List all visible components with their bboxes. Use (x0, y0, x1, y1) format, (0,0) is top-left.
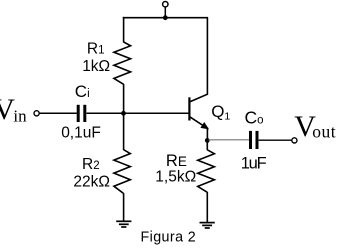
svg-text:22kΩ: 22kΩ (73, 174, 110, 191)
svg-text:1uF: 1uF (241, 155, 267, 173)
svg-text:1kΩ: 1kΩ (82, 58, 110, 75)
transistor Q1 (189, 18, 208, 129)
svg-text:1,5kΩ: 1,5kΩ (155, 169, 196, 186)
capacitor Co (251, 131, 258, 149)
emitter arrowhead (201, 123, 209, 129)
wire Ci to base (through base node) (86, 112, 188, 114)
wire emitter node to Co (grey) (209, 139, 250, 141)
junction dot at supply rail (163, 15, 168, 20)
ground (left, under R2) (116, 221, 131, 227)
base bar (188, 97, 190, 120)
wire RE to ground (206, 192, 208, 223)
junction dot emitter node (205, 138, 210, 143)
junction dot base node (121, 111, 126, 116)
svg-text:Figura 2: Figura 2 (141, 230, 197, 246)
wire Co to Vout terminal (259, 139, 292, 141)
svg-text:0,1uF: 0,1uF (61, 125, 101, 142)
supply terminal stub (164, 6, 166, 17)
wire Vin to Ci (39, 112, 77, 114)
ground (right, under RE) (200, 223, 215, 228)
wire emitter node down to RE (206, 140, 208, 150)
capacitor Ci (78, 105, 85, 122)
wire left riser from rail to R1 (123, 17, 125, 43)
resistor RE (198, 150, 215, 193)
wire emitter riser to node (206, 127, 208, 141)
svg-text:out: out (312, 121, 336, 141)
wire R2 to ground (123, 193, 125, 221)
svg-text:in: in (13, 107, 27, 126)
wire R1 bottom lead to base node (123, 84, 125, 114)
resistor R2 (114, 150, 130, 194)
supply terminal circle (163, 1, 168, 6)
resistor R1 (114, 42, 131, 84)
svg-text:RE: RE (166, 152, 187, 170)
wire base node down to R2 (123, 113, 125, 150)
node Vin terminal (34, 111, 39, 116)
wire top supply rail (123, 17, 208, 19)
collector lead (189, 18, 207, 102)
emitter lead (189, 117, 207, 129)
node Vout terminal (292, 138, 297, 143)
